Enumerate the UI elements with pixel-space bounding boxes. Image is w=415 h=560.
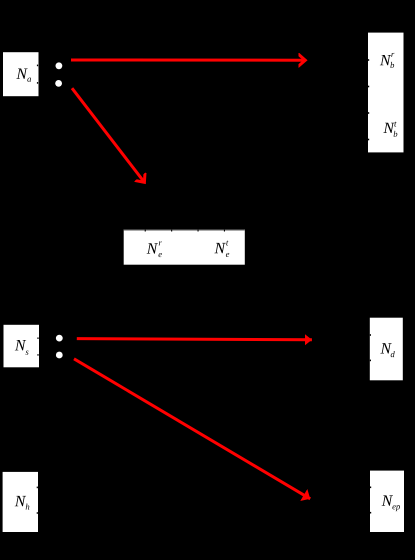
node Nb^r label — [380, 53, 394, 68]
tick nick on Ns box right edge 2 — [37, 354, 38, 356]
tick nick on Ns box right edge 1 — [37, 337, 38, 339]
tick nick on Nb box left edge 2 — [368, 86, 369, 88]
junction dot A1 — [56, 62, 63, 69]
node Ns label — [15, 340, 29, 355]
node Nd box — [370, 318, 403, 381]
tick nick on Nd box left edge 2 — [370, 360, 371, 362]
node Na label — [16, 69, 31, 82]
tick nick on Nb box left edge 1 — [368, 59, 369, 61]
tick nick on Nd box left edge 1 — [370, 334, 371, 336]
node Ns box — [4, 325, 40, 368]
node Na box — [3, 52, 39, 96]
tick nick on Na box right edge 2 — [37, 82, 38, 84]
node Nh box — [3, 472, 38, 532]
tick nick on Nh box right edge 1 — [37, 487, 38, 489]
junction dot A2 — [55, 80, 62, 87]
wire arrow 1: Na to Nb horizontal — [71, 59, 305, 62]
tick nick on Nh box right edge 2 — [37, 512, 38, 514]
tick nick on Na box right edge 1 — [37, 65, 38, 67]
junction dot S2 — [56, 352, 63, 359]
tick 2 on Ne box — [171, 229, 172, 231]
node Ne^r label — [147, 241, 162, 257]
node Ne box top edge line — [124, 229, 245, 230]
tick nick on Nb box left edge 3 — [368, 112, 369, 114]
node Ne box — [124, 229, 245, 264]
tick 3 on Ne box — [198, 229, 199, 231]
tick nick on Nep box left edge 1 — [370, 487, 371, 489]
tick nick on Nep box left edge 2 — [370, 512, 371, 514]
node Nep label — [382, 495, 400, 511]
node Nh label — [15, 496, 30, 510]
node Nep box — [370, 471, 404, 532]
node Nd label — [380, 343, 394, 357]
node Ne^t label — [214, 241, 229, 257]
junction dot S1 — [56, 335, 63, 342]
tick 1 on Ne box — [145, 229, 146, 231]
wire arrow 4: Ns to Nep diagonal — [74, 359, 310, 499]
node Nb box — [368, 33, 404, 153]
tick nick on Nb box left edge 4 — [368, 139, 369, 141]
node Nb^t label — [383, 122, 397, 137]
wire arrow 3: Ns to Nd horizontal — [77, 339, 312, 340]
tick 4 on Ne box — [224, 229, 225, 231]
wire arrow 2: Na to Ne diagonal — [72, 88, 144, 182]
